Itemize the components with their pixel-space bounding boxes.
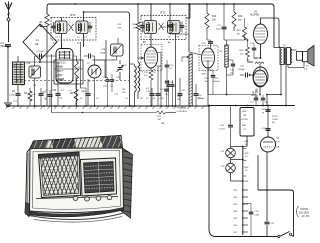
svg-text:.5M: .5M	[157, 119, 161, 121]
gang capacitor C2A	[29, 66, 41, 78]
valve V3 IF amplifier VP13	[141, 45, 162, 71]
capacitor C10	[57, 62, 59, 93]
antenna AE	[5, 3, 9, 11]
resistor R22	[232, 12, 236, 27]
capacitor C8	[49, 90, 51, 94]
text mains label	[297, 206, 300, 217]
svg-text:COM 7: COM 7	[272, 119, 279, 121]
svg-text:IFT1: IFT1	[70, 13, 76, 17]
wire L1 bottom to V1	[39, 60, 41, 62]
valve data table	[54, 60, 83, 84]
svg-text:47K: 47K	[254, 58, 258, 60]
svg-text:+: +	[174, 22, 176, 26]
volume control R16 pot	[189, 54, 192, 106]
svg-text:8M: 8M	[272, 122, 275, 124]
capacitor C26	[206, 30, 208, 40]
junction dots	[74, 3, 76, 5]
valve V6 DDT	[253, 70, 266, 87]
svg-text:+C18: +C18	[249, 43, 255, 45]
svg-text:CONTROL: CONTROL	[177, 111, 188, 113]
svg-text:500pF: 500pF	[100, 53, 106, 55]
capacitor C25 pair	[168, 80, 170, 84]
svg-text:3 Ω: 3 Ω	[304, 69, 308, 71]
AF choke L10	[225, 45, 228, 67]
wire V3 screen loop	[157, 53, 162, 67]
wire rail y12	[84, 11, 128, 13]
ground hatch	[6, 106, 9, 109]
svg-text:4.17W: 4.17W	[242, 119, 248, 121]
valve V6 DDT	[253, 67, 268, 86]
resistor R24	[243, 27, 247, 40]
svg-text:2075: 2075	[202, 74, 208, 76]
wire anode top cap to T2	[261, 18, 281, 47]
IFT1 secondary	[76, 21, 88, 34]
wire y62 link2	[42, 61, 56, 63]
svg-text:10000: 10000	[9, 95, 16, 97]
capacitor C15	[157, 66, 159, 93]
svg-text:1?A: 1?A	[276, 146, 280, 149]
capacitor C4 grid	[35, 55, 57, 57]
mains switch S1	[278, 235, 280, 237]
wire x106 vertical	[105, 40, 107, 78]
valve V4 detector tube	[199, 46, 218, 71]
wire V5 grid y40	[224, 39, 245, 41]
capacitor C6	[40, 88, 42, 93]
svg-text:C4 50pF: C4 50pF	[36, 51, 44, 53]
svg-text:C10: C10	[52, 90, 57, 92]
wire T2 pri bottom	[280, 65, 282, 95]
svg-text:C2C: C2C	[123, 65, 128, 67]
wire HT corner to T2	[271, 4, 274, 48]
wire HT rail y4	[47, 4, 50, 14]
wire speaker bottom	[303, 62, 305, 68]
wire IFT1 sec top	[83, 12, 85, 21]
capacitor C16 row2	[179, 78, 181, 93]
capacitor C19 heater bypass	[230, 106, 232, 125]
resistor R10	[206, 4, 208, 13]
svg-text:C2A: C2A	[26, 62, 31, 65]
wire bottom rail	[216, 236, 278, 238]
radio cabinet top face	[30, 136, 123, 149]
svg-text:1M: 1M	[237, 34, 240, 36]
valve V5 output AC2PEN	[254, 24, 268, 44]
svg-text:147V: 147V	[56, 75, 62, 78]
wire antenna to ground	[7, 47, 9, 102]
radio speaker grille	[39, 152, 81, 198]
IFT1 primary	[55, 21, 67, 34]
svg-text:4A: 4A	[161, 121, 164, 125]
resistor R6	[45, 14, 49, 26]
svg-text:50pF: 50pF	[216, 29, 221, 31]
svg-text:V1 FC13: V1 FC13	[56, 62, 66, 65]
resistor R12	[150, 68, 152, 70]
radio knob strip	[36, 197, 118, 199]
capacitor C24 coupling	[169, 4, 171, 24]
capacitor C18	[195, 84, 197, 93]
wire V6 plate link	[248, 61, 254, 63]
IFT2 coupling arrows	[159, 23, 164, 30]
svg-text:P.C24: P.C24	[272, 116, 278, 118]
IFT1 inner bars	[57, 24, 59, 32]
capacitor C31	[266, 128, 271, 130]
wire y64 link	[95, 59, 117, 61]
wire IFT1 sec bottom	[83, 34, 85, 48]
radio cabinet top dark blob	[52, 139, 76, 152]
radio cabinet left side	[26, 149, 31, 215]
speaker coupling box	[297, 51, 303, 60]
capacitor C18 cathode	[253, 44, 255, 48]
valve V1 FC13 envelope	[56, 49, 73, 84]
wire coil feed jog	[130, 63, 135, 65]
wire IFT1 pri bottom	[61, 34, 63, 48]
gang capacitor C2B	[111, 44, 124, 56]
capacitor C16 grid	[240, 74, 245, 76]
svg-text:1000pF: 1000pF	[238, 69, 246, 71]
svg-text:47K: 47K	[133, 28, 137, 30]
resistor R4	[29, 88, 31, 91]
lamp LP1	[231, 146, 243, 148]
wire x208	[207, 60, 209, 106]
svg-text:VOLUME: VOLUME	[177, 108, 187, 110]
wire chassis vertical x209	[208, 106, 210, 230]
ground rail	[6, 105, 210, 107]
svg-text:R22: R22	[238, 16, 243, 18]
svg-text:C2B: C2B	[101, 49, 106, 51]
frame aerial L1	[23, 24, 57, 60]
chain taps lower	[243, 189, 248, 191]
wire rail ext right	[209, 105, 295, 107]
svg-text:MAINS: MAINS	[301, 208, 309, 211]
svg-text:3.3K: 3.3K	[32, 94, 37, 96]
valve V7 rectifier	[261, 137, 276, 152]
svg-text:2000pF: 2000pF	[213, 81, 220, 83]
svg-text:68K: 68K	[238, 20, 242, 22]
capacitor C11	[87, 79, 89, 93]
ground	[4, 102, 12, 104]
wire IFT2 sec bottom	[175, 34, 177, 107]
svg-text:200-250V: 200-250V	[299, 213, 309, 215]
wire y60	[92, 59, 105, 61]
wire V7 heater down	[257, 155, 259, 190]
capacitor C15 det	[208, 69, 213, 71]
IFT2 primary	[144, 21, 157, 34]
resistor R16	[136, 22, 140, 30]
wire vertical x131	[129, 14, 131, 106]
resistor grid stopper V6	[255, 62, 264, 64]
wire IFT1 pri top	[61, 17, 63, 21]
radio dial window	[81, 158, 117, 196]
wire V6 bottom	[259, 87, 261, 95]
radio bottom left corner dark	[25, 202, 30, 217]
svg-text:AE: AE	[35, 42, 39, 46]
wire V3 grid arrow	[138, 57, 144, 59]
wire L1 top link	[39, 24, 41, 27]
capacitor C32	[243, 203, 251, 205]
wire mains top link	[258, 190, 294, 193]
capacitor C14 row	[151, 88, 153, 93]
svg-text:AC2PEN: AC2PEN	[250, 14, 260, 17]
svg-text:C2C: C2C	[116, 77, 121, 79]
IFT2 inner bars	[146, 24, 148, 32]
capacitor C27 pair	[255, 95, 257, 98]
coil L9	[138, 62, 140, 92]
lamp LP2	[230, 160, 232, 164]
capacitor C33	[265, 221, 270, 223]
svg-text:25K: 25K	[122, 92, 126, 94]
svg-text:~0.023: ~0.023	[219, 128, 226, 130]
capacitor stack C14	[166, 60, 168, 65]
wire IFT2 pri bottom	[150, 34, 152, 48]
wire IFT2 pri top	[150, 4, 152, 21]
AVC bus y112	[51, 54, 53, 113]
svg-text:+C31: +C31	[261, 128, 267, 130]
oscillator coil pack L2	[13, 62, 25, 85]
wire cathode rail	[254, 57, 261, 59]
wire V7 cathode down	[266, 152, 268, 221]
speaker LS	[303, 51, 308, 61]
svg-text:L1: L1	[36, 38, 40, 42]
resistor R5	[75, 76, 77, 89]
capacitor C30	[266, 109, 271, 111]
capacitor C19 small	[227, 59, 234, 61]
radio cabinet bottom shadow	[26, 208, 124, 217]
capacitor C4	[17, 90, 19, 93]
svg-text:H.T.: H.T.	[56, 70, 61, 73]
svg-text:4-70V: 4-70V	[56, 66, 63, 69]
IF transformer IFT1 box	[51, 18, 96, 41]
variable capacitor C2C	[119, 60, 121, 64]
svg-text:500pF: 500pF	[1, 45, 8, 48]
IFT2 secondary	[168, 21, 181, 34]
capacitor C1	[5, 44, 11, 46]
radio cabinet right side	[121, 148, 133, 218]
wire speaker top	[291, 49, 297, 51]
resistor R26	[247, 40, 249, 47]
capacitor C17 coupling	[223, 4, 225, 27]
capacitor C8 series	[84, 55, 88, 57]
capacitor C13 pair	[107, 78, 109, 80]
wire IFT2 sec top corner	[186, 4, 190, 18]
radio knobs	[73, 196, 78, 200]
mains dropper box R28	[240, 108, 254, 137]
IFT1 coupling arrows	[69, 24, 74, 31]
svg-text:IFT2: IFT2	[160, 11, 166, 15]
valve V2 triode osc	[88, 65, 101, 78]
wire T2 sec to rail	[285, 65, 287, 106]
IF transformer IFT2 box	[141, 16, 186, 40]
svg-text:FC: FC	[31, 67, 34, 69]
svg-text:1M: 1M	[140, 98, 143, 100]
resistor R3	[75, 61, 79, 79]
wire y95 link	[208, 94, 256, 96]
svg-text:10K: 10K	[212, 20, 217, 22]
svg-text:~0.023: ~0.023	[253, 215, 260, 217]
AVC line dashed	[16, 80, 130, 82]
radio cabinet front face	[30, 148, 124, 213]
svg-text:AC. DC.: AC. DC.	[302, 215, 311, 218]
coil L8	[135, 66, 137, 92]
svg-text:50K: 50K	[205, 81, 209, 83]
svg-text:R10: R10	[212, 16, 217, 18]
wire mains right vertical	[293, 193, 295, 237]
svg-text:C24: C24	[162, 27, 167, 29]
wire rect feed x268	[267, 106, 269, 138]
wire x80	[80, 42, 82, 88]
svg-text:2M: 2M	[177, 99, 180, 101]
